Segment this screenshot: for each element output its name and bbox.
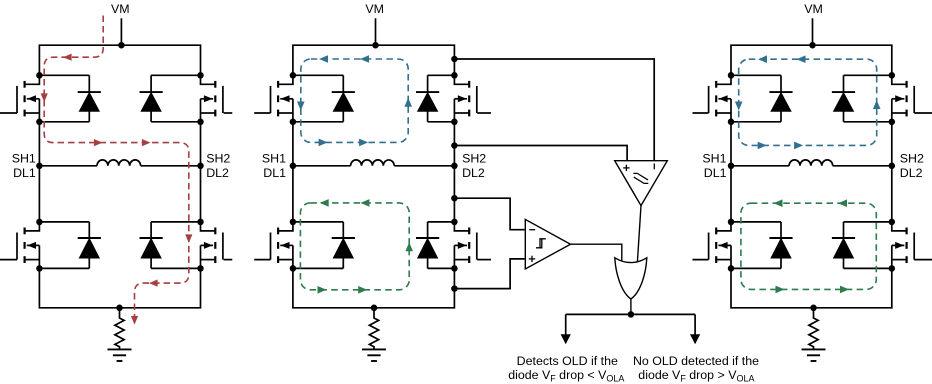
current loop (green dashed, circuit 2 low side) bbox=[300, 199, 413, 294]
transistor Q6 (high-side right, circuit 2) bbox=[454, 75, 491, 122]
resistor R1 (sense resistor) bbox=[115, 308, 124, 350]
junction Q10 source bbox=[889, 119, 896, 126]
wire top rail (circuit 2) bbox=[293, 45, 455, 75]
inductor L1 (motor winding) bbox=[97, 160, 141, 166]
node SH2/DL2 (circuit 2) bbox=[451, 152, 486, 180]
diode D8 (body diode of Q8) bbox=[416, 222, 454, 269]
junction Q7 source bbox=[290, 265, 297, 272]
junction Q1 drain bbox=[36, 72, 43, 79]
transistor Q1 (high-side left, circuit 1) bbox=[0, 75, 39, 122]
diode D3 (body diode of Q3) bbox=[39, 222, 101, 269]
current loop (green dashed, circuit 3 low side) bbox=[741, 199, 876, 293]
junction VM dot (circuit 2) bbox=[372, 42, 379, 49]
junction Q3 drain bbox=[36, 219, 43, 226]
wire tap to comparator U1 plus (from SH2) bbox=[454, 146, 627, 161]
junction Q12 source bbox=[889, 265, 896, 272]
junction tap U1 plus bbox=[451, 142, 458, 149]
wire SH row right segment (circuit 2) bbox=[394, 165, 454, 167]
junction Q4 source bbox=[197, 265, 204, 272]
transistor Q4 (low-side right, circuit 1) bbox=[201, 222, 233, 269]
transistor Q8 (low-side right, circuit 2) bbox=[454, 222, 491, 269]
junction sense node (circuit 2) bbox=[371, 305, 378, 312]
ground (circuit 3) bbox=[802, 349, 826, 361]
wire left leg SH1 (circuit 3) bbox=[730, 122, 732, 222]
caption no OLD bbox=[633, 354, 759, 384]
svg-text:VM: VM bbox=[111, 2, 130, 16]
current path (red, circuit 1) bbox=[41, 16, 193, 325]
junction Q11 drain bbox=[728, 219, 735, 226]
junction sense node (circuit 3) bbox=[810, 305, 817, 312]
junction tap U1 minus bbox=[451, 56, 458, 63]
svg-text:Detects OLD if the: Detects OLD if the bbox=[517, 354, 618, 368]
wire right leg SH2 (circuit 2) bbox=[453, 122, 455, 222]
transistor Q5 (high-side left, circuit 2) bbox=[254, 75, 293, 122]
node SH2/DL2 (circuit 3) bbox=[889, 152, 924, 180]
diode D6 (body diode of Q6) bbox=[416, 75, 454, 122]
resistor R2 (sense resistor) bbox=[369, 308, 378, 350]
inductor L2 (motor winding) bbox=[351, 160, 395, 166]
svg-text:SH2: SH2 bbox=[462, 152, 486, 166]
junction Q1 source bbox=[36, 119, 43, 126]
junction Q7 drain bbox=[290, 219, 297, 226]
wire bottom rail (circuit 2) bbox=[293, 268, 455, 307]
wire bottom rail (circuit 1) bbox=[39, 268, 200, 307]
svg-text:diode VF drop > VOLA: diode VF drop > VOLA bbox=[638, 368, 754, 384]
wire left leg SH1 (circuit 1) bbox=[38, 122, 40, 222]
junction Q10 drain bbox=[889, 72, 896, 79]
junction Q6 source bbox=[451, 119, 458, 126]
diode D7 (body diode of Q7) bbox=[293, 222, 355, 269]
wire VM feed (circuit 3) bbox=[812, 18, 814, 45]
transistor Q10 (high-side right, circuit 3) bbox=[892, 75, 932, 122]
arrow output left bbox=[561, 314, 571, 344]
junction Q8 drain bbox=[451, 219, 458, 226]
junction Q5 drain bbox=[290, 72, 297, 79]
wire tap to comparator U2 minus (from SH2 leg) bbox=[454, 198, 524, 230]
current loop (blue dashed, circuit 2 high side) bbox=[297, 55, 412, 146]
svg-text:SH1: SH1 bbox=[12, 152, 36, 166]
wire SH row left segment (circuit 3) bbox=[731, 165, 789, 167]
comparator U1 (window comparator, points down) bbox=[615, 161, 668, 262]
transistor Q11 (low-side left, circuit 3) bbox=[693, 222, 732, 269]
svg-text:DL2: DL2 bbox=[462, 166, 485, 180]
ground (circuit 1) bbox=[108, 349, 132, 361]
svg-text:DL1: DL1 bbox=[704, 166, 727, 180]
junction Q8 source bbox=[451, 265, 458, 272]
node SH2/DL2 (circuit 1) bbox=[197, 152, 230, 180]
svg-text:SH2: SH2 bbox=[206, 152, 230, 166]
diode D1 (body diode of Q1) bbox=[39, 75, 101, 122]
caption detects OLD bbox=[508, 354, 624, 384]
junction Q12 drain bbox=[889, 219, 896, 226]
junction Q6 drain bbox=[451, 72, 458, 79]
svg-text:DL1: DL1 bbox=[13, 166, 36, 180]
svg-text:VM: VM bbox=[804, 2, 823, 16]
arrow output right bbox=[690, 314, 700, 344]
junction tap U2 plus bbox=[451, 285, 458, 292]
svg-text:VM: VM bbox=[365, 2, 384, 16]
transistor Q3 (low-side left, circuit 1) bbox=[0, 222, 39, 269]
wire top rail (circuit 3) bbox=[731, 45, 892, 75]
node SH1/DL1 (circuit 2) bbox=[262, 152, 296, 180]
svg-text:diode VF drop < VOLA: diode VF drop < VOLA bbox=[508, 368, 624, 384]
transistor Q12 (low-side right, circuit 3) bbox=[892, 222, 932, 269]
junction VM dot (circuit 3) bbox=[809, 42, 816, 49]
wire left leg SH1 (circuit 2) bbox=[292, 122, 294, 222]
diode D2 (body diode of Q2) bbox=[140, 75, 201, 122]
junction Q9 source bbox=[728, 119, 735, 126]
junction sense node (circuit 1) bbox=[116, 305, 123, 312]
wire VM feed (circuit 1) bbox=[120, 18, 122, 45]
junction VM dot (circuit 1) bbox=[118, 42, 125, 49]
wire SH row left segment (circuit 1) bbox=[39, 165, 97, 167]
diode D10 (body diode of Q10) bbox=[832, 75, 892, 122]
node SH1/DL1 (circuit 3) bbox=[702, 152, 734, 180]
junction Q2 drain bbox=[197, 72, 204, 79]
wire output distribution bbox=[566, 313, 695, 315]
ground (circuit 2) bbox=[362, 349, 386, 361]
wire tap to comparator U1 minus (from VM rail) bbox=[454, 59, 654, 160]
svg-text:No OLD detected if the: No OLD detected if the bbox=[633, 354, 759, 368]
svg-text:DL1: DL1 bbox=[263, 166, 286, 180]
inductor L3 (motor winding) bbox=[789, 160, 833, 166]
svg-text:SH1: SH1 bbox=[702, 152, 726, 166]
wire VM feed (circuit 2) bbox=[375, 18, 377, 45]
OR gate U3 (points down) bbox=[615, 258, 647, 299]
diode D12 (body diode of Q12) bbox=[832, 222, 892, 269]
junction Q9 drain bbox=[728, 72, 735, 79]
wire SH row left segment (circuit 2) bbox=[293, 165, 351, 167]
junction tap U2 minus bbox=[451, 195, 458, 202]
wire top rail (circuit 1) bbox=[39, 45, 200, 75]
svg-text:SH2: SH2 bbox=[900, 152, 924, 166]
svg-text:SH1: SH1 bbox=[262, 152, 286, 166]
transistor Q9 (high-side left, circuit 3) bbox=[693, 75, 732, 122]
transistor Q7 (low-side left, circuit 2) bbox=[254, 222, 293, 269]
current loop (blue dashed, circuit 3 high side) bbox=[735, 55, 881, 149]
comparator U2 (hysteresis comparator, points right) bbox=[525, 219, 622, 269]
junction Q4 drain bbox=[197, 219, 204, 226]
wire SH row right segment (circuit 3) bbox=[833, 165, 892, 167]
diode D4 (body diode of Q4) bbox=[140, 222, 201, 269]
wire right leg SH2 (circuit 1) bbox=[200, 122, 202, 222]
resistor R3 (sense resistor) bbox=[809, 308, 818, 350]
diode D5 (body diode of Q5) bbox=[293, 75, 355, 122]
diode D11 (body diode of Q11) bbox=[731, 222, 793, 269]
wire bottom rail (circuit 3) bbox=[731, 268, 892, 307]
junction Q5 source bbox=[290, 119, 297, 126]
wire SH row right segment (circuit 1) bbox=[141, 165, 201, 167]
wire right leg SH2 (circuit 3) bbox=[891, 122, 893, 222]
junction Q11 source bbox=[728, 265, 735, 272]
transistor Q2 (high-side right, circuit 1) bbox=[201, 75, 233, 122]
junction OR output bbox=[628, 311, 635, 318]
diode D9 (body diode of Q9) bbox=[731, 75, 793, 122]
junction Q3 source bbox=[36, 265, 43, 272]
svg-text:DL2: DL2 bbox=[900, 166, 923, 180]
node SH1/DL1 (circuit 1) bbox=[12, 152, 43, 180]
junction Q2 source bbox=[197, 119, 204, 126]
svg-text:DL2: DL2 bbox=[206, 166, 229, 180]
wire OR gate output stem bbox=[630, 299, 632, 314]
wire tap to comparator U2 plus (from low leg) bbox=[454, 259, 524, 289]
